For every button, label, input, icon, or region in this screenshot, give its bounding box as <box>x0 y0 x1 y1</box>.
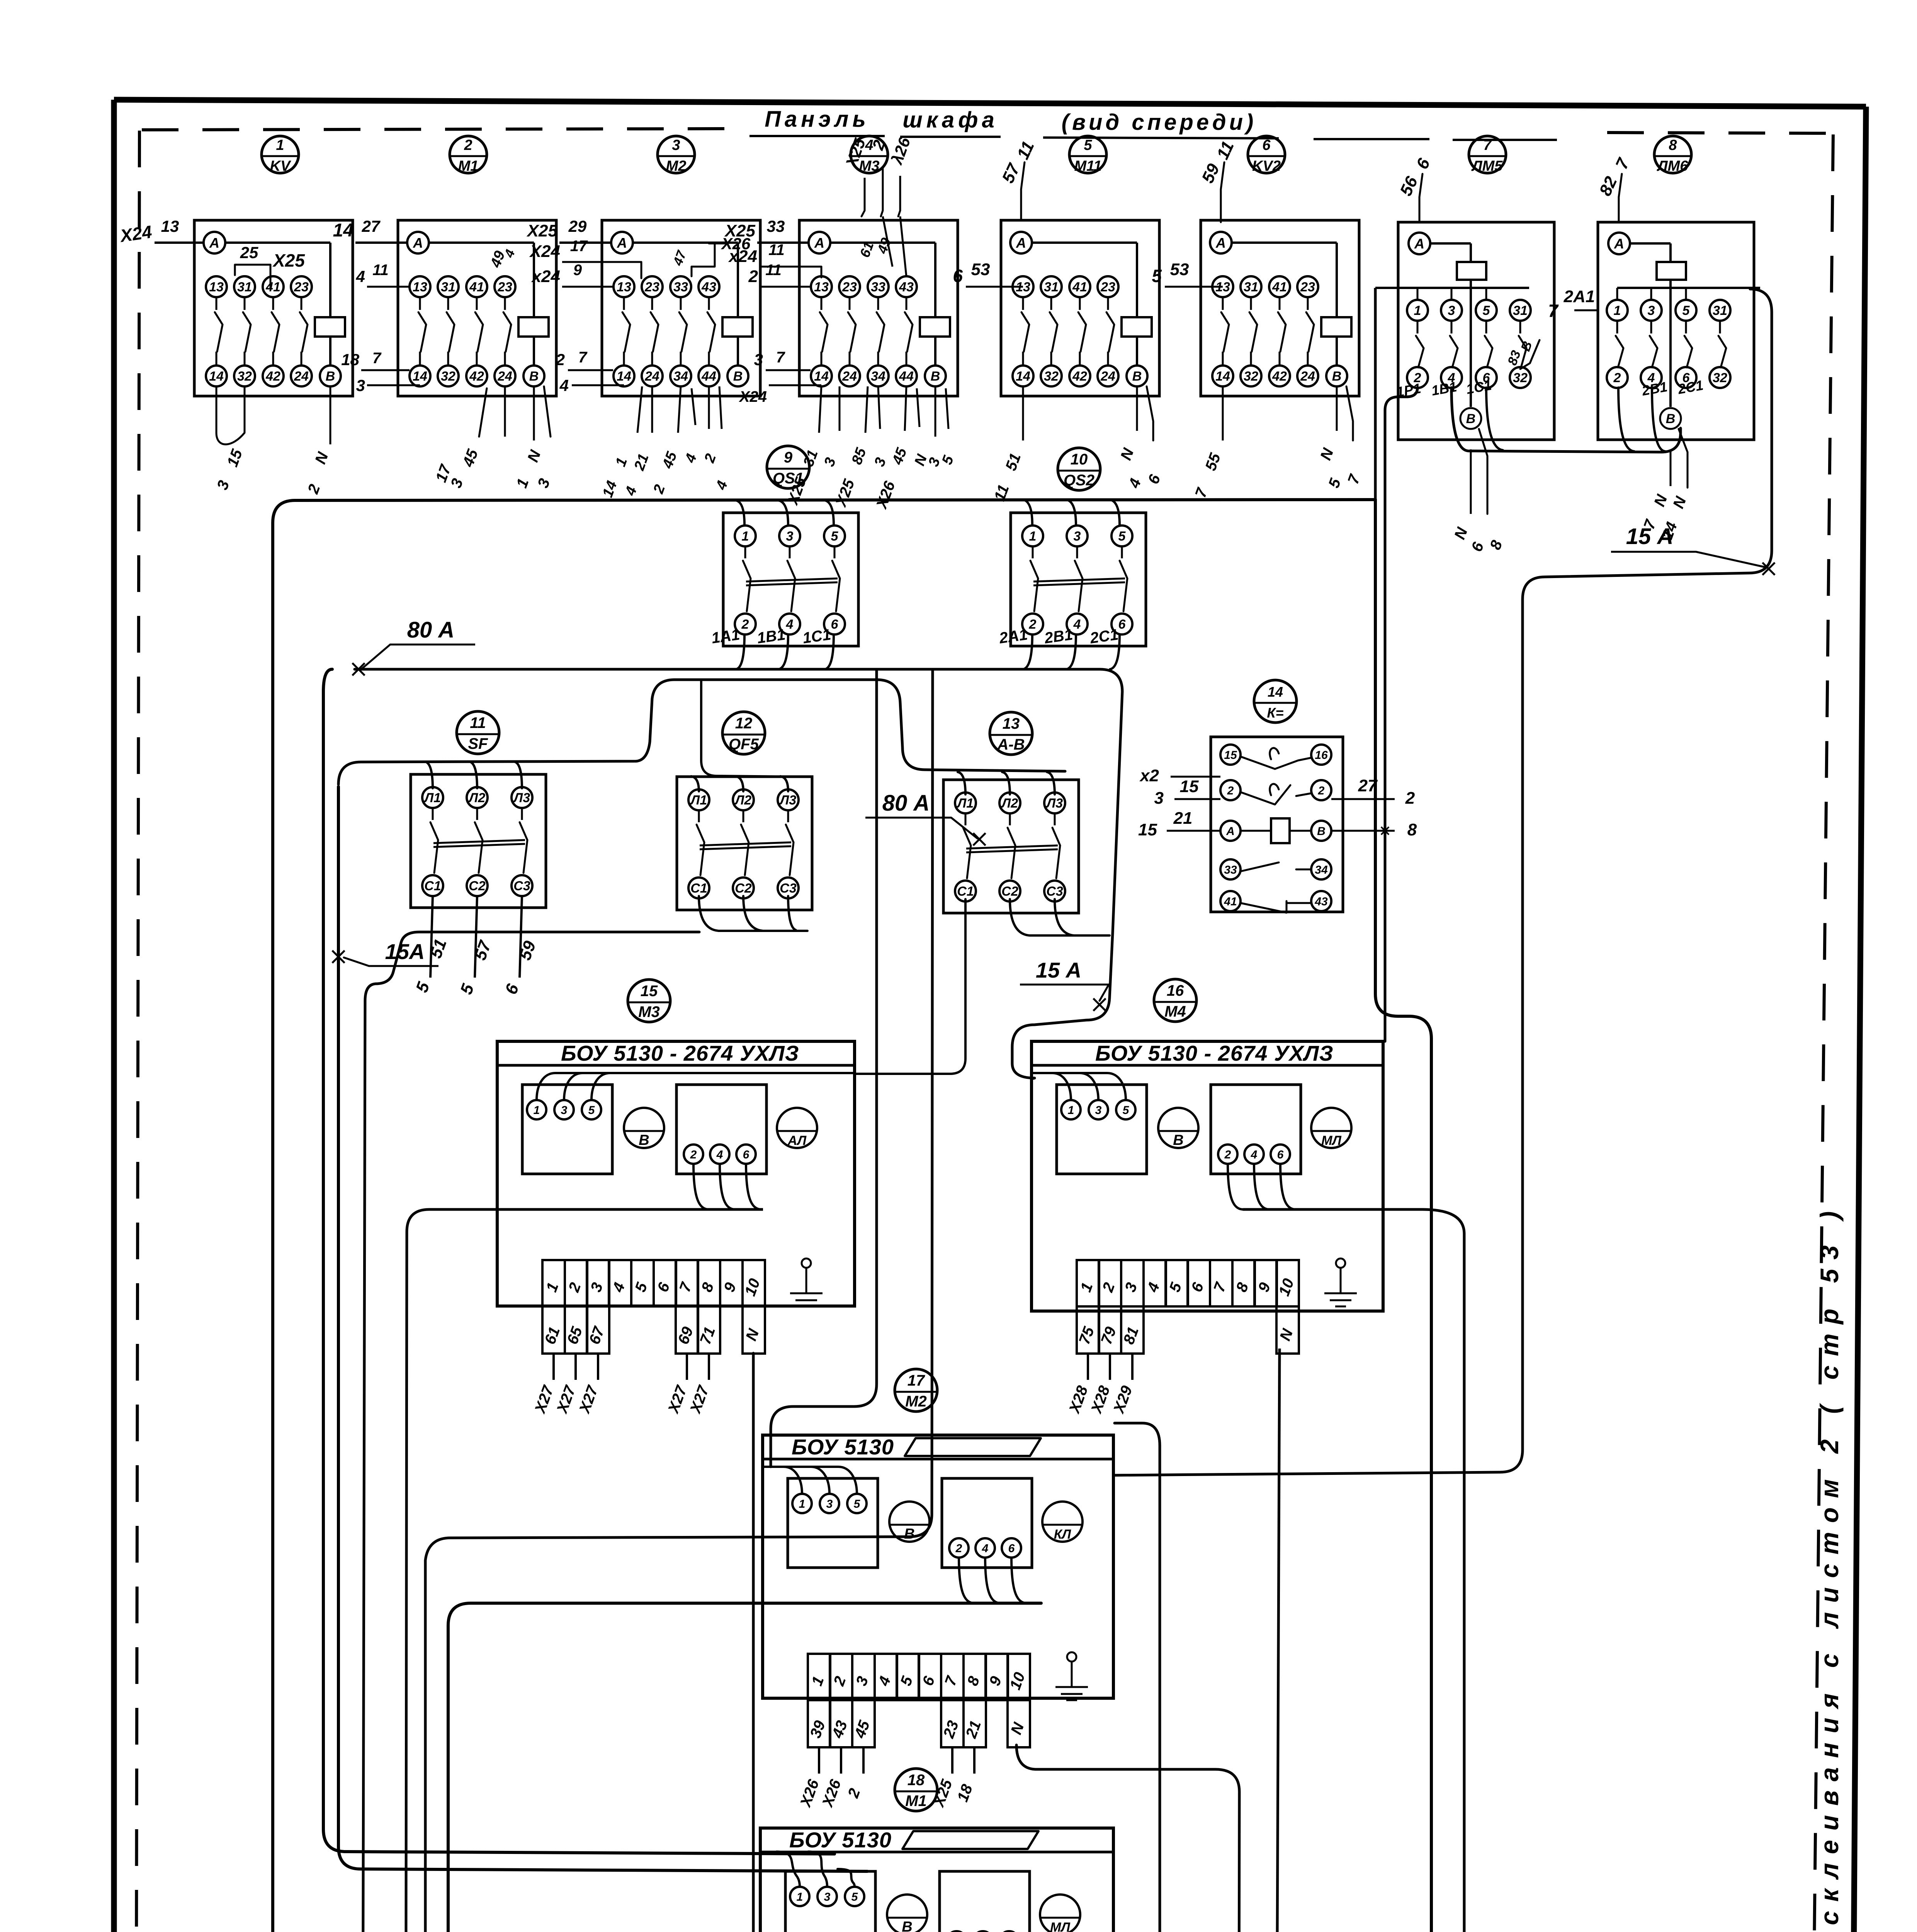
relay K1 bottom leads <box>216 386 218 433</box>
switch QS1 <box>723 513 858 646</box>
designator circle 13/A-B <box>990 712 1032 755</box>
wire: Q13 top taps <box>958 772 965 794</box>
relay K5 top lead 57/11 <box>1021 162 1025 220</box>
relay K14 left stubs x2 / 3-15 / 15-21 <box>1171 776 1220 778</box>
svg-text:24: 24 <box>1100 369 1115 384</box>
svg-text:4: 4 <box>982 1542 989 1555</box>
svg-text:В: В <box>1317 825 1326 838</box>
svg-text:АЛ: АЛ <box>787 1133 807 1148</box>
svg-text:9: 9 <box>573 262 582 279</box>
svg-text:2: 2 <box>464 137 472 153</box>
svg-text:5: 5 <box>1682 303 1690 318</box>
svg-text:16: 16 <box>1315 749 1328 762</box>
svg-text:МЛ: МЛ <box>1321 1133 1341 1148</box>
svg-text:В: В <box>529 369 539 384</box>
relay K5 bottom leads <box>1022 386 1024 440</box>
svg-text:8: 8 <box>1407 820 1417 839</box>
designator circle 12/QF5 <box>722 712 765 754</box>
svg-text:24: 24 <box>1300 369 1315 384</box>
wire: QS1 top taps <box>736 500 744 525</box>
svg-text:6: 6 <box>1277 1148 1284 1161</box>
wire: QS1 bottom taps <box>736 634 744 669</box>
svg-text:15 А: 15 А <box>1036 958 1081 982</box>
svg-text:23: 23 <box>1300 280 1315 294</box>
wire: unit15 N to M4 junction <box>745 1353 753 1932</box>
wire: feeder drop to M4 with jog <box>753 500 1431 1932</box>
wire: unit17 feed riser from QS collector <box>771 670 877 1467</box>
svg-text:17: 17 <box>570 238 588 255</box>
svg-text:М1: М1 <box>905 1793 927 1810</box>
svg-text:2: 2 <box>1405 789 1415 808</box>
relay K14 contacts 15-16 <box>1220 745 1241 765</box>
svg-text:80 А: 80 А <box>882 791 930 816</box>
svg-text:4: 4 <box>1251 1148 1258 1161</box>
svg-text:43: 43 <box>1314 895 1328 908</box>
svg-text:32: 32 <box>1513 371 1528 385</box>
svg-text:42: 42 <box>265 369 280 384</box>
svg-text:2: 2 <box>955 1542 962 1555</box>
svg-text:18: 18 <box>341 350 359 369</box>
relay K1 tap 25/X25 <box>235 265 270 275</box>
svg-text:34: 34 <box>1315 864 1328 876</box>
svg-text:6: 6 <box>1118 617 1126 632</box>
svg-text:2: 2 <box>690 1148 697 1161</box>
relay K4 top drops X25 2 X26 <box>864 178 866 211</box>
wire: relay K7 output 2 to unit16 riser <box>1385 388 1417 1041</box>
svg-text:31: 31 <box>441 280 455 294</box>
svg-text:х24: х24 <box>728 247 757 266</box>
svg-text:А-В: А-В <box>997 736 1025 753</box>
svg-text:В: В <box>1132 369 1142 384</box>
relay K3 inputs 2/7 4 <box>568 369 613 371</box>
svg-text:41: 41 <box>1272 280 1287 294</box>
svg-text:14: 14 <box>1215 369 1230 384</box>
wire: neutral tee riser to unit17 <box>425 670 933 1932</box>
designator circle 10/QS2 <box>1058 448 1100 490</box>
svg-text:23: 23 <box>644 280 659 294</box>
svg-text:6: 6 <box>1008 1542 1015 1555</box>
svg-text:2: 2 <box>1029 617 1037 632</box>
svg-text:3: 3 <box>786 529 794 544</box>
breaker SF <box>411 774 546 908</box>
svg-text:2А1: 2А1 <box>1564 287 1595 306</box>
svg-text:С3: С3 <box>513 879 530 893</box>
svg-text:31: 31 <box>1244 280 1258 294</box>
svg-text:М1: М1 <box>458 158 479 174</box>
relay 4/М3 <box>799 220 958 396</box>
svg-text:9: 9 <box>784 449 793 466</box>
svg-text:А: А <box>209 235 219 251</box>
relay 6/KV2 <box>1201 220 1359 396</box>
svg-text:8: 8 <box>1669 137 1677 153</box>
svg-text:3: 3 <box>672 137 680 153</box>
svg-text:33: 33 <box>673 280 688 294</box>
svg-text:7: 7 <box>1548 301 1559 321</box>
svg-text:А: А <box>617 235 627 251</box>
svg-text:KV: KV <box>270 158 291 174</box>
svg-text:А: А <box>814 235 824 251</box>
panel boundary (dashed) <box>142 129 730 130</box>
svg-text:43: 43 <box>701 280 716 294</box>
svg-text:х2: х2 <box>1139 766 1159 785</box>
control unit 18/M1 (BOU 5130) <box>895 1769 937 1811</box>
relay 1/KV <box>194 220 353 396</box>
svg-text:2: 2 <box>1227 784 1234 797</box>
control unit 15/M3 (BOU 5130-2674) <box>628 980 670 1022</box>
svg-text:41: 41 <box>1072 280 1087 294</box>
relay K14 right stubs 27-2 / 8 <box>1331 798 1395 800</box>
svg-text:15: 15 <box>1224 749 1237 762</box>
svg-text:31: 31 <box>1513 303 1528 318</box>
svg-text:14: 14 <box>1016 369 1030 384</box>
svg-text:18: 18 <box>908 1772 925 1789</box>
svg-text:6: 6 <box>831 617 839 632</box>
designator circle 5/М11 <box>1069 136 1106 173</box>
wire: input 1 feeder (bus to QS tops and M4 run) <box>273 500 1375 1932</box>
wire: relay K7/K8 bottom collector <box>1451 388 1681 452</box>
wire: lighting collector and riser <box>362 932 699 1932</box>
svg-text:6: 6 <box>1262 137 1271 153</box>
svg-text:7: 7 <box>372 350 382 367</box>
svg-text:Л2: Л2 <box>734 793 751 808</box>
svg-text:32: 32 <box>1044 369 1059 384</box>
designator circle 7/ЛМ5 <box>1469 136 1506 173</box>
wire: QS2 drop to unit 16 feed (15A) <box>1012 933 1113 1079</box>
svg-text:5: 5 <box>1152 266 1162 286</box>
svg-text:QS1: QS1 <box>773 470 804 487</box>
svg-text:13: 13 <box>161 217 179 235</box>
svg-text:М2: М2 <box>666 158 687 174</box>
svg-text:5: 5 <box>851 1891 858 1903</box>
svg-text:х24: х24 <box>531 267 560 286</box>
wire: unit17 N to bus riser <box>1016 1745 1239 1932</box>
svg-text:3: 3 <box>1154 789 1164 808</box>
wire: unit16 N drop to bus <box>1276 1349 1280 1932</box>
svg-text:4: 4 <box>716 1148 723 1161</box>
svg-text:МЛ: МЛ <box>1050 1920 1070 1932</box>
svg-text:Л3: Л3 <box>1045 796 1063 811</box>
svg-text:32: 32 <box>1244 369 1258 384</box>
svg-text:М11: М11 <box>1074 158 1101 174</box>
wire: QS2 top taps <box>1023 500 1032 525</box>
svg-text:В: В <box>902 1919 912 1932</box>
relay K14 (time relay block) <box>1211 737 1343 912</box>
svg-text:1: 1 <box>1029 529 1037 544</box>
svg-text:11: 11 <box>372 262 389 279</box>
svg-text:29: 29 <box>568 217 587 235</box>
svg-text:В: В <box>1666 412 1676 426</box>
svg-text:В: В <box>931 369 940 384</box>
relay K2 input wire 14/27 <box>355 241 407 244</box>
svg-text:Х24: Х24 <box>739 388 767 405</box>
svg-text:43: 43 <box>899 280 914 294</box>
svg-text:С3: С3 <box>780 881 797 896</box>
designator circle 3/М2 <box>658 136 695 173</box>
svg-text:БОУ 5130: БОУ 5130 <box>792 1435 894 1459</box>
svg-text:1: 1 <box>1068 1104 1074 1117</box>
wire: QS outputs collector y1732 <box>355 669 1122 933</box>
svg-text:14: 14 <box>617 369 631 384</box>
svg-text:7: 7 <box>1483 137 1492 153</box>
svg-text:5: 5 <box>1118 529 1126 544</box>
svg-text:10: 10 <box>1071 451 1088 468</box>
svg-text:Л1: Л1 <box>690 793 707 808</box>
svg-text:Линия склеивания с листом 2: Линия склеивания с листом 2 ( стр 53 ) <box>1815 1202 1844 1932</box>
svg-text:ЛМ5: ЛМ5 <box>1471 158 1503 174</box>
wire: SF top taps <box>425 762 433 788</box>
svg-text:QS2: QS2 <box>1064 472 1094 489</box>
svg-text:13: 13 <box>1003 715 1020 732</box>
wire: QF5 outputs collector <box>699 896 807 931</box>
switch QS2 <box>1011 513 1146 646</box>
svg-text:шкафа: шкафа <box>902 107 998 133</box>
svg-text:3: 3 <box>1074 529 1081 544</box>
wire: unit15 output to M3 riser <box>406 1209 709 1932</box>
svg-text:4: 4 <box>1073 617 1081 632</box>
svg-text:В: В <box>326 369 335 384</box>
svg-text:Х24: Х24 <box>529 242 560 261</box>
svg-text:7: 7 <box>776 349 785 366</box>
svg-text:42: 42 <box>469 369 484 384</box>
svg-text:В: В <box>639 1132 649 1148</box>
svg-text:6: 6 <box>743 1148 749 1161</box>
relay K8 bottom leads <box>1670 449 1672 486</box>
svg-text:К=: К= <box>1267 705 1283 721</box>
svg-text:2: 2 <box>748 267 758 286</box>
svg-text:5: 5 <box>1483 303 1490 318</box>
svg-text:15: 15 <box>641 983 658 1000</box>
wire: relay K8 output 15A run to unit17 <box>1113 289 1772 1475</box>
breaker QF5 <box>677 777 812 910</box>
svg-text:3: 3 <box>356 376 365 395</box>
svg-text:11: 11 <box>765 262 782 279</box>
svg-text:А: А <box>1614 236 1624 252</box>
svg-text:1: 1 <box>1414 303 1421 318</box>
designator circle 14/K <box>1254 680 1297 723</box>
svg-text:53: 53 <box>1170 260 1189 279</box>
svg-text:БОУ 5130: БОУ 5130 <box>789 1828 892 1852</box>
svg-text:31: 31 <box>237 280 252 294</box>
svg-text:4: 4 <box>786 617 794 632</box>
svg-text:3: 3 <box>826 1498 833 1510</box>
svg-text:В: В <box>904 1526 914 1542</box>
svg-text:Л2: Л2 <box>468 791 485 805</box>
svg-text:14: 14 <box>333 220 353 241</box>
svg-text:Х25: Х25 <box>724 221 756 240</box>
svg-text:11: 11 <box>470 714 486 731</box>
svg-text:С2: С2 <box>735 881 752 896</box>
relay K14 contacts 41-43 <box>1220 891 1241 911</box>
svg-text:32: 32 <box>441 369 455 384</box>
svg-text:13: 13 <box>209 280 224 294</box>
svg-text:41: 41 <box>469 280 484 294</box>
relay K3 tap X26 <box>692 243 726 276</box>
wire: SF output stub leads 51 57 59 <box>430 896 433 978</box>
svg-text:4: 4 <box>559 376 569 395</box>
svg-text:В: В <box>1466 412 1476 426</box>
svg-text:42: 42 <box>1072 369 1087 384</box>
svg-text:5: 5 <box>831 529 839 544</box>
svg-text:3: 3 <box>1448 303 1455 318</box>
control unit 16/M4 (BOU 5130-2674) <box>1154 979 1196 1022</box>
svg-text:24: 24 <box>644 369 659 384</box>
svg-text:А: А <box>1215 235 1226 251</box>
svg-text:42: 42 <box>1272 369 1287 384</box>
designator circle 2/М1 <box>450 136 487 173</box>
svg-text:32: 32 <box>1713 371 1727 385</box>
svg-text:33: 33 <box>1224 864 1237 876</box>
svg-text:5: 5 <box>854 1498 861 1510</box>
relay K4 inputs X25-33 x24-11 2-11 <box>757 241 809 244</box>
svg-text:С1: С1 <box>690 881 707 896</box>
svg-text:13: 13 <box>413 280 427 294</box>
designator circle 11/SF <box>457 711 499 754</box>
svg-text:А: А <box>1226 825 1235 838</box>
svg-text:12: 12 <box>735 715 753 732</box>
relay 5/М11 <box>1001 220 1159 396</box>
svg-text:44: 44 <box>899 369 914 384</box>
svg-text:15: 15 <box>1138 820 1157 839</box>
svg-text:Л2: Л2 <box>1001 796 1018 811</box>
svg-text:15А: 15А <box>385 939 425 964</box>
svg-text:14: 14 <box>1268 684 1283 700</box>
svg-text:5: 5 <box>1123 1104 1130 1117</box>
relay 2/М1 <box>398 220 556 396</box>
svg-text:3: 3 <box>824 1891 831 1903</box>
svg-text:1: 1 <box>534 1104 540 1117</box>
svg-text:1: 1 <box>799 1498 806 1510</box>
svg-text:34: 34 <box>871 369 885 384</box>
relay K7 top lead 56/6 <box>1419 174 1422 222</box>
svg-text:В: В <box>733 369 743 384</box>
relay K8 top lead 82/7 <box>1619 174 1622 222</box>
wire: Q13 outputs <box>855 899 965 1074</box>
svg-text:25: 25 <box>240 243 258 262</box>
svg-text:1: 1 <box>797 1891 803 1903</box>
svg-text:QF5: QF5 <box>729 736 759 753</box>
svg-text:24: 24 <box>497 369 512 384</box>
svg-text:С2: С2 <box>469 879 486 893</box>
svg-text:КЛ: КЛ <box>1054 1527 1071 1542</box>
svg-text:23: 23 <box>1100 280 1115 294</box>
relay 8/ЛМ6 <box>1598 222 1754 440</box>
svg-text:23: 23 <box>842 280 857 294</box>
svg-text:2: 2 <box>1613 371 1621 385</box>
svg-text:А: А <box>1016 235 1026 251</box>
svg-text:17: 17 <box>908 1372 925 1389</box>
svg-text:Л3: Л3 <box>779 793 796 808</box>
relay K3 bottom leads <box>637 386 642 433</box>
svg-text:3: 3 <box>1648 303 1655 318</box>
svg-text:1: 1 <box>1614 303 1621 318</box>
svg-text:Л3: Л3 <box>513 791 530 805</box>
svg-text:SF: SF <box>468 735 488 752</box>
svg-text:Л1: Л1 <box>956 796 974 811</box>
svg-text:БОУ 5130 - 2674 УХЛЗ: БОУ 5130 - 2674 УХЛЗ <box>1095 1041 1334 1065</box>
svg-text:24: 24 <box>294 369 309 384</box>
svg-text:3: 3 <box>754 350 763 369</box>
wire: QS2 bottom taps <box>1023 634 1032 669</box>
svg-text:24: 24 <box>842 369 857 384</box>
svg-text:31: 31 <box>1044 280 1059 294</box>
relay K14 contacts 21-27 <box>1220 780 1241 800</box>
relay 3/М2 <box>602 220 760 396</box>
relay K14 contacts 33-34 <box>1220 859 1241 879</box>
svg-text:15 А: 15 А <box>1626 524 1674 549</box>
svg-text:1: 1 <box>742 529 749 544</box>
svg-text:(вид спереди): (вид спереди) <box>1062 110 1257 135</box>
wire: M2 riser and unit17 output <box>448 1603 1041 1932</box>
designator circle 9/QS1 <box>767 446 809 488</box>
relay K14 coil A-B <box>1220 821 1241 841</box>
relay K6 bottom leads <box>1222 386 1224 440</box>
svg-text:М2: М2 <box>905 1393 927 1410</box>
svg-text:27: 27 <box>362 217 381 235</box>
svg-text:14: 14 <box>814 369 829 384</box>
wire: QF5 top taps <box>691 776 699 791</box>
svg-text:М4: М4 <box>1164 1003 1186 1020</box>
svg-text:6: 6 <box>953 266 963 286</box>
svg-text:41: 41 <box>1224 895 1237 908</box>
svg-text:5: 5 <box>588 1104 595 1117</box>
svg-text:А: А <box>1414 236 1424 252</box>
designator circle 1/KV <box>262 136 299 173</box>
svg-text:21: 21 <box>1173 809 1193 828</box>
designator circle 8/ЛМ6 <box>1654 136 1691 173</box>
svg-text:13: 13 <box>814 280 829 294</box>
svg-text:2: 2 <box>1318 784 1325 797</box>
relay K2 bottom leads <box>504 386 506 437</box>
svg-text:32: 32 <box>237 369 252 384</box>
svg-text:2: 2 <box>741 617 749 632</box>
wire: unit16 output to vvod2 riser <box>834 1209 1464 1932</box>
svg-text:23: 23 <box>294 280 309 294</box>
relay K7 bottom leads <box>1470 449 1472 514</box>
svg-text:Х25: Х25 <box>272 250 305 270</box>
svg-text:33: 33 <box>871 280 885 294</box>
relay K4 inputs 3/7 X24 <box>766 369 811 371</box>
svg-text:KV2: KV2 <box>1252 158 1281 174</box>
wire: relay K7 feeder riser <box>1374 288 1377 500</box>
designator circle 6/KV2 <box>1248 136 1285 173</box>
svg-text:1: 1 <box>276 137 284 153</box>
svg-text:7: 7 <box>578 349 588 366</box>
svg-text:34: 34 <box>673 369 688 384</box>
svg-text:5: 5 <box>1084 137 1092 153</box>
svg-text:В: В <box>1332 369 1342 384</box>
svg-text:31: 31 <box>1713 303 1727 318</box>
svg-text:В: В <box>1173 1132 1183 1148</box>
relay K3 inputs X25-29 X24-17 x24-9 <box>559 241 611 244</box>
sheet frame <box>114 100 1866 107</box>
svg-text:11: 11 <box>768 241 785 259</box>
svg-text:3: 3 <box>561 1104 568 1117</box>
svg-text:С3: С3 <box>1046 884 1063 899</box>
svg-text:С2: С2 <box>1001 884 1018 899</box>
svg-text:ЛМ6: ЛМ6 <box>1657 158 1689 174</box>
wire: QF5 tap branch <box>701 680 795 777</box>
svg-text:44: 44 <box>701 369 716 384</box>
svg-text:41: 41 <box>265 280 280 294</box>
control unit 17/M2 (BOU 5130) <box>895 1369 937 1412</box>
svg-text:С1: С1 <box>957 884 974 899</box>
relay K1 input wire X24-13 <box>155 241 204 244</box>
svg-text:С1: С1 <box>424 879 441 893</box>
relay K2 input 4/11 <box>367 286 410 288</box>
svg-text:Панэль: Панэль <box>765 107 870 132</box>
relay K6 top lead 59/11 <box>1221 162 1224 222</box>
svg-text:13: 13 <box>617 280 631 294</box>
